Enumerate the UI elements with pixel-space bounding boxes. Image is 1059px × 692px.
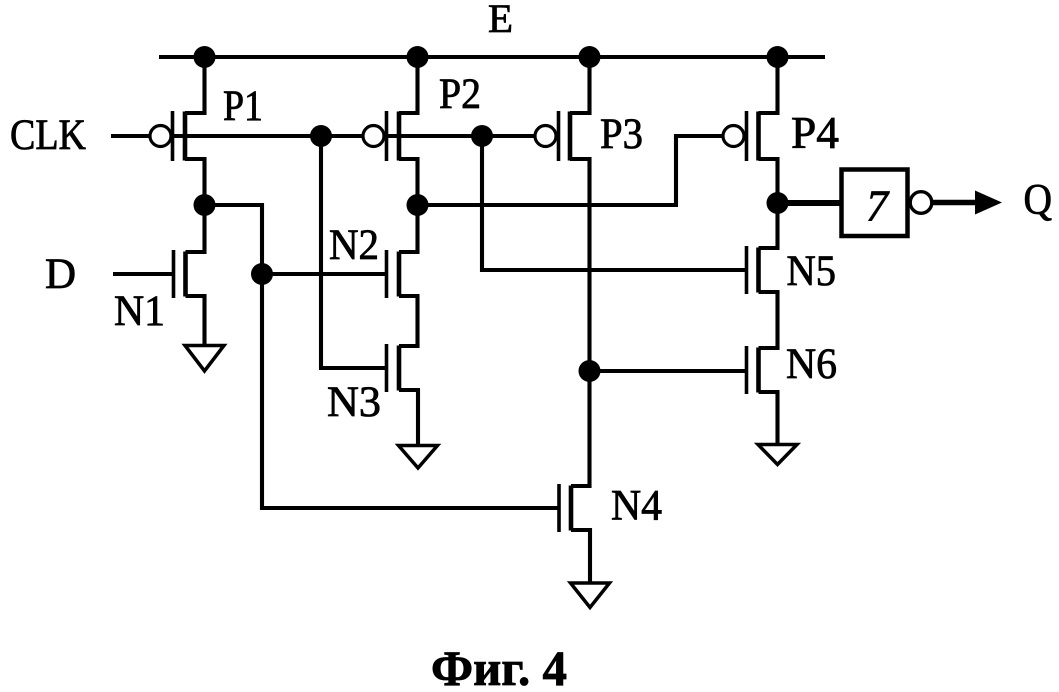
wire: output node to N5 drain: [759, 203, 778, 248]
wire: node to N1 drain: [186, 205, 205, 252]
svg-text:E: E: [488, 0, 513, 41]
wire: CLK gate bus (CLK to P3 gate): [111, 134, 535, 138]
inverter U7 box: [842, 170, 908, 237]
wire: column2 rail to P2 source: [399, 57, 418, 113]
wire: column3 node to N6 gate: [590, 369, 747, 373]
svg-text:P1: P1: [223, 83, 263, 130]
svg-text:P4: P4: [791, 108, 839, 158]
node: P1/N1 drain junction: [194, 194, 216, 216]
svg-text:N6: N6: [786, 341, 837, 388]
wire: output node to inverter input (thick): [778, 200, 842, 206]
ground at N6: [758, 445, 797, 465]
transistor N6 channel bar: [756, 348, 761, 393]
wire: N3 source to ground: [399, 390, 418, 446]
transistor P1 channel bar: [183, 112, 188, 161]
transistor P4 gate bar: [745, 111, 749, 161]
transistor N5 channel bar: [756, 248, 761, 293]
transistor P2 gate bubble: [363, 126, 384, 147]
inverter output bubble: [910, 192, 932, 214]
wire: CLK junction down to N3 gate: [321, 136, 387, 368]
wire: column4 rail to P4 source: [759, 57, 778, 113]
svg-text:7: 7: [866, 182, 890, 231]
transistor P2 channel bar: [397, 112, 402, 161]
wire: second CLK junction down and right to N5 gate: [482, 136, 747, 270]
wire: N6 source to ground: [759, 392, 778, 445]
transistor N3 channel bar: [397, 346, 402, 391]
wire: N4 source to ground: [571, 530, 590, 583]
svg-text:Фиг. 4: Фиг. 4: [431, 640, 567, 692]
node: CLK junction 2: [471, 125, 493, 147]
ground at N1: [185, 346, 224, 372]
wire: feedback P2 drain node to P4 gate: [418, 136, 724, 205]
svg-text:D: D: [45, 251, 76, 298]
transistor N1 gate bar: [172, 250, 176, 298]
node: N6 gate junction: [579, 360, 601, 382]
transistor P4 channel bar: [756, 112, 761, 161]
transistor N6 gate bar: [745, 346, 749, 394]
wire: output arrow shaft: [932, 200, 980, 206]
wire: P1 drain node right then down to D-row node: [205, 205, 263, 274]
power rail E: [159, 55, 825, 59]
output arrowhead: [975, 191, 1002, 215]
transistor N2 channel bar: [397, 252, 402, 297]
transistor P3 gate bubble: [535, 126, 556, 147]
wire: D-row node to N2 gate: [262, 272, 387, 276]
transistor N2 gate bar: [385, 250, 389, 298]
wire: N2 source to N3 drain: [399, 296, 418, 346]
svg-text:N1: N1: [114, 288, 165, 335]
transistor N4 gate bar: [557, 484, 561, 532]
transistor P1 gate bar: [171, 111, 175, 161]
svg-text:N5: N5: [787, 248, 837, 295]
wire: P4 drain down to output node: [759, 159, 778, 203]
ground at N3: [399, 446, 438, 469]
svg-text:N4: N4: [611, 483, 662, 530]
wire: D-row node down and right to N4 gate: [262, 274, 559, 508]
ground at N4: [571, 583, 610, 608]
node: rail junction at P1: [194, 46, 216, 68]
node: rail junction at P3: [579, 46, 601, 68]
transistor P2 gate bar: [385, 111, 389, 161]
transistor N1 channel bar: [183, 252, 188, 297]
svg-text:Q: Q: [1024, 177, 1053, 224]
transistor P3 channel bar: [568, 112, 573, 161]
transistor P1 gate bubble: [150, 126, 171, 147]
node: CLK junction 1: [310, 125, 332, 147]
wire: D input: [113, 272, 174, 276]
wire: column3 rail to P3 source: [570, 57, 590, 113]
node: P4/N5 output junction: [767, 192, 789, 214]
transistor N4 channel bar: [569, 486, 574, 531]
transistor P4 gate bubble: [723, 126, 744, 147]
wire: N1 source to ground: [186, 296, 205, 346]
wire: N5 source to N6 drain: [759, 292, 778, 348]
wire: P1 drain down to node: [185, 159, 205, 205]
transistor P3 gate bar: [557, 111, 561, 161]
node: P2/N2 drain junction: [407, 194, 429, 216]
wire: P3 drain down to N4 drain: [570, 159, 590, 486]
transistor N5 gate bar: [745, 246, 749, 294]
node: rail junction at P4: [767, 46, 789, 68]
svg-text:N2: N2: [329, 222, 379, 269]
wire: node down to N2 drain: [399, 205, 418, 252]
transistor N3 gate bar: [385, 344, 389, 392]
node: D-row junction: [251, 263, 273, 285]
svg-text:P3: P3: [600, 111, 643, 158]
svg-text:N3: N3: [327, 379, 381, 426]
wire: column1 rail to P1 source: [185, 57, 205, 113]
node: rail junction at P2: [407, 46, 429, 68]
svg-text:CLK: CLK: [10, 112, 86, 159]
svg-text:P2: P2: [439, 71, 481, 118]
wire: P2 drain down to node: [399, 159, 418, 205]
